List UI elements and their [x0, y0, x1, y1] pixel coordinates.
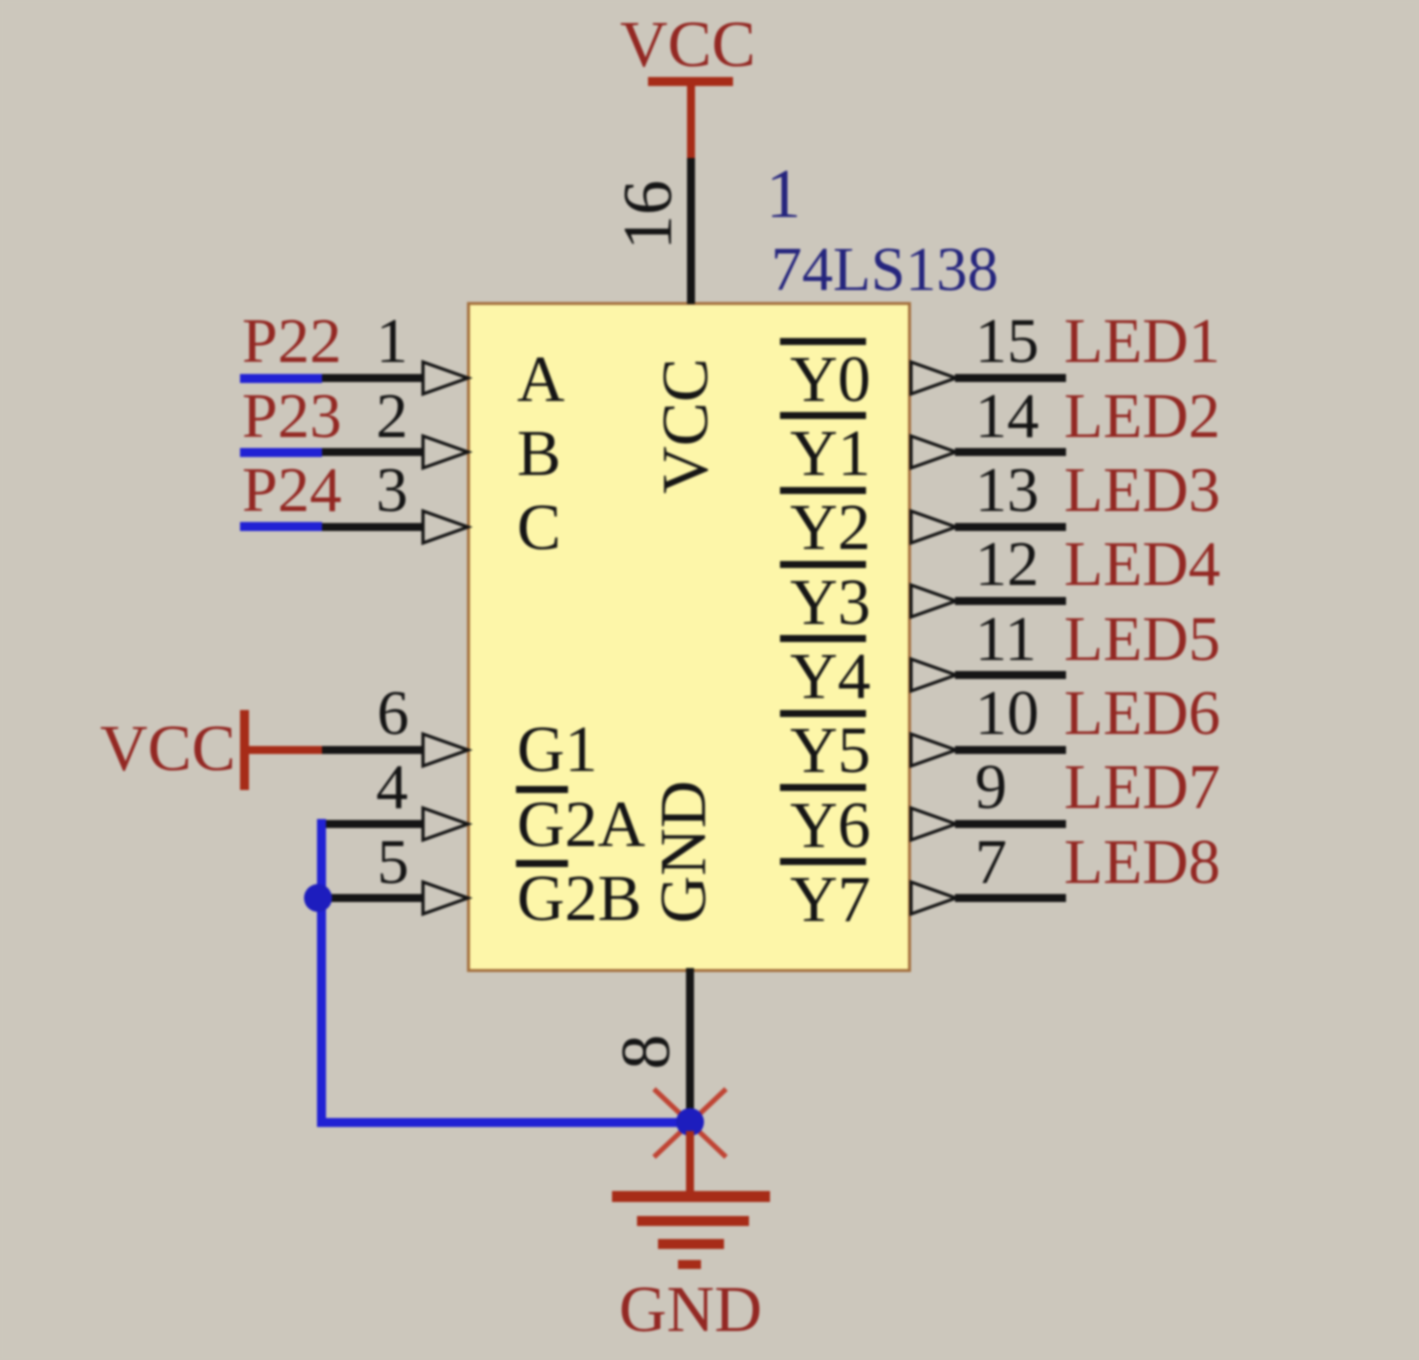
net label LED2 [1064, 384, 1220, 448]
VCC power-bar symbol (left, vertical) [240, 710, 249, 790]
pin 4 arrow [421, 806, 472, 842]
pin 6 arrow [421, 732, 472, 768]
pin 12 arrow [909, 583, 960, 619]
wire pin4 (black part) [322, 820, 423, 828]
wire Y3 to LED4 [955, 597, 1066, 605]
net label LED8 [1064, 830, 1220, 894]
pin 15 arrow [909, 360, 960, 396]
pin name G2A [517, 792, 645, 858]
overbar of Y7 [780, 858, 866, 865]
pin number 12 [975, 532, 1039, 596]
wire P24 stub (blue) [240, 522, 322, 531]
wire Y1 to LED2 [955, 448, 1066, 456]
overbar of Y5 [780, 710, 866, 717]
wire P23 to pin 2 [322, 448, 423, 456]
IC U1 74LS138 body [467, 302, 911, 972]
junction dot (pins 4-5) [303, 883, 333, 913]
pin number 15 [975, 309, 1039, 373]
pin 13 arrow [909, 509, 960, 545]
GND symbol bar 2 [637, 1216, 749, 1226]
overbar of Y2 [780, 487, 866, 494]
pin number 5 [377, 830, 409, 894]
net label LED7 [1064, 755, 1220, 819]
pin 11 arrow [909, 657, 960, 693]
overbar of Y6 [780, 784, 866, 791]
net label P23 [242, 384, 342, 448]
pin name Y6 [790, 793, 871, 859]
net label LED4 [1064, 532, 1220, 596]
pin 7 arrow [909, 880, 960, 916]
power net label GND [619, 1277, 762, 1343]
pin 2 arrow [421, 434, 472, 470]
pin 14 arrow [909, 434, 960, 470]
net label LED3 [1064, 458, 1220, 522]
wire pin16 stem (black part) [687, 158, 695, 304]
overbar of Y1 [780, 412, 866, 419]
wire P22 stub (blue) [240, 374, 322, 383]
overbar of Y3 [780, 561, 866, 568]
pin number 13 [975, 458, 1039, 522]
pin name Y5 [790, 718, 871, 784]
pin 1 arrow [421, 360, 472, 396]
wire GND stem (red) [686, 1131, 694, 1193]
pin name Y2 [790, 495, 871, 561]
wire Y4 to LED5 [955, 671, 1066, 679]
pin number 11 [975, 607, 1037, 671]
wire pin5 (black part) [326, 894, 423, 902]
GND symbol bar 3 [658, 1239, 724, 1249]
pin number 3 [376, 458, 408, 522]
pin name VCC (internal) [653, 226, 719, 626]
wire VCC to G1 (red part) [247, 746, 322, 754]
overbar of G2A [516, 786, 568, 793]
wire VCC stem (red part) [687, 84, 695, 160]
junction dot (GND node) [675, 1107, 705, 1137]
wire Y6 to LED7 [955, 820, 1066, 828]
pin 9 arrow [909, 806, 960, 842]
net label LED5 [1064, 607, 1220, 671]
pin number 4 [376, 755, 408, 819]
wire P24 to pin 3 [322, 523, 423, 531]
net label LED6 [1064, 681, 1220, 745]
GND symbol bar 1 [612, 1191, 770, 1202]
pin number 7 [975, 830, 1007, 894]
pin name Y0 [790, 347, 871, 413]
pin name Y1 [790, 421, 871, 487]
pin number 9 [975, 755, 1007, 819]
wire pin8 stem (black) [686, 968, 694, 1118]
overbar of Y0 [780, 338, 866, 345]
no-connect X marker [653, 1088, 727, 1158]
wire enable net vertical (blue) [317, 819, 326, 1126]
wire enable net horizontal (blue) [317, 1118, 690, 1127]
pin number 2 [376, 384, 408, 448]
pin name Y3 [790, 570, 871, 636]
wire P23 stub (blue) [240, 448, 322, 457]
pin number 16 [614, 15, 684, 415]
pin number 10 [975, 681, 1039, 745]
net label LED1 [1064, 309, 1220, 373]
net label P22 [242, 309, 342, 373]
pin 3 arrow [421, 509, 472, 545]
pin name B [517, 421, 561, 487]
pin name G1 [517, 717, 598, 783]
pin number 1 [376, 309, 408, 373]
VCC power-bar symbol [648, 77, 733, 86]
pin number 6 [377, 681, 409, 745]
designator 1 [766, 160, 801, 230]
pin number 8 [612, 852, 682, 1252]
pin 5 arrow [421, 880, 472, 916]
power net label VCC (left) [100, 716, 236, 782]
pin name G2B [517, 866, 642, 932]
pin 10 arrow [909, 732, 960, 768]
pin number 14 [975, 384, 1039, 448]
pin name C [517, 495, 561, 561]
wire P22 to pin 1 [322, 374, 423, 382]
wire Y2 to LED3 [955, 523, 1066, 531]
pin name Y4 [790, 644, 871, 710]
GND symbol bar 4 [678, 1260, 701, 1269]
wire Y7 to LED8 [955, 894, 1066, 902]
pin name A [517, 347, 565, 413]
pin name Y7 [790, 867, 871, 933]
part value 74LS138 [771, 239, 998, 301]
overbar of G2B [516, 860, 568, 867]
pin name GND (internal) [651, 652, 717, 1052]
wire Y0 to LED1 [955, 374, 1066, 382]
wire Y5 to LED6 [955, 746, 1066, 754]
wire VCC to G1 (black part) [322, 746, 423, 754]
net label P24 [242, 458, 342, 522]
power net label VCC (top) [620, 12, 756, 78]
overbar of Y4 [780, 635, 866, 642]
